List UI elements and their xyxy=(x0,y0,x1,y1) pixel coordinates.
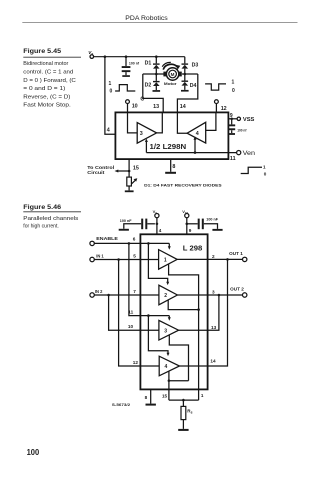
svg-text:Vs: Vs xyxy=(153,209,158,215)
svg-text:100 nF: 100 nF xyxy=(206,217,218,221)
svg-text:7: 7 xyxy=(133,289,136,294)
svg-text:1/2 L298N: 1/2 L298N xyxy=(150,144,187,151)
svg-text:C: C xyxy=(140,97,144,103)
svg-text:Figure 5.45: Figure 5.45 xyxy=(23,48,61,55)
svg-text:control. (C = 1 and: control. (C = 1 and xyxy=(23,70,73,76)
svg-text:8: 8 xyxy=(172,164,175,170)
resistor R1 sense xyxy=(127,171,138,190)
wire sense A from A1 to pin 1 xyxy=(169,264,199,400)
note fast recovery diodes xyxy=(144,184,222,188)
wire Vs supply rail xyxy=(94,56,185,58)
wire IN2 to pin 7 xyxy=(94,289,159,296)
svg-text:4: 4 xyxy=(159,228,162,233)
svg-text:D4: D4 xyxy=(190,83,197,89)
node Vss terminal xyxy=(182,209,189,218)
svg-text:1: 1 xyxy=(164,258,167,264)
svg-text:Paralleled channels: Paralleled channels xyxy=(23,216,79,222)
svg-text:4: 4 xyxy=(107,128,110,134)
node Vs terminal xyxy=(153,209,159,218)
figure 5.46 caption xyxy=(23,204,81,230)
wire sense B from A4 to pin 15 xyxy=(168,371,189,400)
FIG 5.46 SCHEMATIC xyxy=(90,209,247,431)
op-amp A4 xyxy=(187,122,206,143)
svg-text:100 nf: 100 nf xyxy=(129,61,140,65)
wire sense join below box xyxy=(162,393,204,402)
svg-text:8: 8 xyxy=(145,395,148,400)
wire enable rail to Ven pin 11 xyxy=(146,152,236,154)
wire arrow to control circuit xyxy=(87,165,129,175)
svg-text:Circuit: Circuit xyxy=(87,170,105,175)
ground under C2 xyxy=(229,133,235,135)
svg-text:0: 0 xyxy=(232,88,235,94)
wire pin12 to A4 input xyxy=(206,112,216,130)
svg-text:13: 13 xyxy=(153,104,159,110)
ground under R1 xyxy=(125,190,134,192)
svg-text:Reverse, (C = D): Reverse, (C = D) xyxy=(23,94,70,100)
wire IN1 to pin 12 xyxy=(119,260,160,367)
ground left of C3 xyxy=(119,229,129,231)
note figure code xyxy=(112,403,130,407)
diode D1 xyxy=(145,57,160,74)
op-amp U1 box 1/2 L298N xyxy=(115,112,228,159)
ground pin 8 xyxy=(146,404,156,406)
op-amp A3 xyxy=(159,320,179,340)
svg-text:12: 12 xyxy=(221,106,227,112)
FIG 5.45 SCHEMATIC xyxy=(87,50,266,192)
svg-text:3: 3 xyxy=(212,289,215,294)
svg-text:1: 1 xyxy=(109,81,112,87)
svg-text:D1: D1 xyxy=(145,61,152,67)
wire pin 4 supply xyxy=(156,218,162,235)
wire enable riser A3 xyxy=(145,139,148,153)
resistor Rs xyxy=(181,400,193,429)
ground right of C4 xyxy=(212,229,222,231)
waveform Ven enable step xyxy=(241,165,267,177)
svg-text:0: 0 xyxy=(110,88,113,94)
svg-text:1: 1 xyxy=(201,393,204,398)
svg-text:To Control: To Control xyxy=(87,165,114,170)
node OUT1 terminal xyxy=(229,251,247,262)
svg-text:4: 4 xyxy=(196,131,199,137)
motor M1 xyxy=(162,62,182,86)
svg-text:100 nf: 100 nf xyxy=(237,128,247,132)
svg-text:14: 14 xyxy=(180,104,186,110)
svg-text:Fast Motor Stop.: Fast Motor Stop. xyxy=(23,103,71,109)
wire sense A from A2 xyxy=(168,300,200,311)
wire pin 15 sense xyxy=(128,159,139,172)
svg-text:OUT 2: OUT 2 xyxy=(230,287,244,292)
node C input terminal pin 10 xyxy=(126,97,145,113)
capacitor C4 100nF xyxy=(187,217,219,229)
svg-text:L 298: L 298 xyxy=(183,245,203,252)
capacitor C3 100nF xyxy=(120,219,155,230)
node Vs terminal xyxy=(88,50,93,58)
wire ground to C3 xyxy=(124,224,141,229)
node IN1 terminal xyxy=(90,254,105,262)
wire A4 output pin 14 xyxy=(180,359,217,367)
svg-text:S-5673/2: S-5673/2 xyxy=(112,403,130,407)
svg-text:for high current.: for high current. xyxy=(23,224,59,230)
svg-text:100 nF: 100 nF xyxy=(120,219,132,223)
wire enable A into A2 xyxy=(148,243,169,285)
wire pin 13 to OUT2 xyxy=(208,295,219,330)
svg-text:Rs: Rs xyxy=(187,409,192,415)
svg-text:D1: D4 FAST RECOVERY DIODES: D1: D4 FAST RECOVERY DIODES xyxy=(144,184,222,188)
svg-text:2: 2 xyxy=(164,293,167,299)
svg-text:15: 15 xyxy=(133,166,139,172)
svg-text:D2: D2 xyxy=(145,82,152,88)
node VSS terminal pin 9 xyxy=(228,113,255,123)
svg-text:D3: D3 xyxy=(192,62,199,68)
svg-text:ENABLE: ENABLE xyxy=(96,236,118,241)
svg-text:M: M xyxy=(171,72,175,77)
diode D4 xyxy=(182,74,197,90)
wire IN1 to pin 5 xyxy=(94,254,158,261)
junction rail-D1 xyxy=(155,55,158,58)
svg-text:Vss: Vss xyxy=(182,209,188,215)
wire ENABLE to pin 11 xyxy=(128,243,169,315)
ground under C1 xyxy=(122,75,130,77)
svg-text:Bidirectional motor: Bidirectional motor xyxy=(23,61,68,67)
svg-text:2: 2 xyxy=(212,254,215,259)
svg-text:10: 10 xyxy=(128,324,134,329)
wire pin 8 ground xyxy=(145,389,151,403)
svg-text:Figure 5.46: Figure 5.46 xyxy=(23,204,61,211)
svg-text:10: 10 xyxy=(132,103,138,109)
page header xyxy=(22,15,297,23)
svg-text:9: 9 xyxy=(189,228,192,233)
svg-text:5: 5 xyxy=(133,254,136,259)
wire A3 output to pin13 xyxy=(157,112,163,132)
wire pin 9 supply xyxy=(186,218,192,235)
ground pin 8 xyxy=(165,172,176,174)
svg-text:3: 3 xyxy=(140,131,143,137)
page number xyxy=(27,448,40,457)
capacitor C2 100nf xyxy=(228,120,247,133)
wire motor-left to pin 13 xyxy=(143,74,163,112)
svg-text:Motor: Motor xyxy=(164,82,178,86)
wire A1 output to OUT1 xyxy=(177,254,242,261)
ground under D2 xyxy=(153,90,161,92)
wire A4 output to pin14 xyxy=(177,112,187,133)
wire enable riser A4 xyxy=(194,136,197,154)
svg-text:= 0 and D = 1): = 0 and D = 1) xyxy=(23,86,65,92)
wire motor left node xyxy=(143,73,164,76)
svg-text:D = 0 ) Forward, (C: D = 0 ) Forward, (C xyxy=(23,78,76,84)
wire pin 14 to OUT1 xyxy=(208,259,228,366)
svg-text:IN 1: IN 1 xyxy=(96,254,104,259)
wire enable B into A3 xyxy=(147,314,171,320)
wire enable B into A4 xyxy=(148,316,169,357)
svg-text:1: 1 xyxy=(263,165,266,170)
svg-text:12: 12 xyxy=(133,360,139,365)
svg-text:9: 9 xyxy=(230,113,233,119)
wire A2 output to OUT2 xyxy=(177,289,242,296)
node OUT2 terminal xyxy=(230,287,247,298)
waveform D input xyxy=(205,80,235,94)
svg-text:14: 14 xyxy=(210,359,216,364)
ground under Rs xyxy=(178,429,188,431)
junction rail-pin4 xyxy=(104,55,107,58)
wire pin10 to A3 input xyxy=(128,112,138,132)
wire IN2 to pin 10 xyxy=(109,295,159,330)
wire ENABLE to pin 6 xyxy=(94,237,169,245)
node D input terminal pin 12 xyxy=(215,100,227,113)
wire motor right node xyxy=(182,73,198,76)
wire pin 4 (Vs to IC) xyxy=(105,57,116,135)
node Ven terminal xyxy=(230,150,256,162)
op-amp A1 xyxy=(159,250,178,270)
svg-text:15: 15 xyxy=(162,393,168,398)
junction rail-C1 xyxy=(125,55,128,58)
svg-text:100: 100 xyxy=(27,448,40,457)
svg-text:IN 2: IN 2 xyxy=(95,289,103,294)
node IN2 terminal xyxy=(90,289,103,297)
diode D3 xyxy=(182,57,199,74)
wire C4 to ground xyxy=(204,224,218,229)
svg-text:VSS: VSS xyxy=(243,117,255,123)
svg-text:11: 11 xyxy=(230,156,236,162)
wire A3 output pin 13 xyxy=(179,325,217,330)
waveform C input xyxy=(109,81,136,95)
node ENABLE terminal xyxy=(90,236,118,245)
svg-text:Vs: Vs xyxy=(88,50,93,56)
svg-text:4: 4 xyxy=(165,364,168,370)
wire sense B from A3 xyxy=(169,335,188,381)
figure 5.45 caption xyxy=(23,48,81,108)
diode D2 xyxy=(145,74,160,90)
op-amp A3 xyxy=(137,123,156,144)
svg-text:11: 11 xyxy=(128,309,133,314)
svg-text:0: 0 xyxy=(264,172,267,177)
wire pin 8 to ground xyxy=(171,159,176,172)
ground under D4 xyxy=(181,90,189,92)
svg-text:3: 3 xyxy=(164,328,167,334)
svg-text:13: 13 xyxy=(211,325,217,330)
svg-text:6: 6 xyxy=(133,237,136,242)
op-amp A2 xyxy=(159,285,178,305)
wire enable A into A1 xyxy=(147,242,171,250)
svg-text:OUT 1: OUT 1 xyxy=(229,251,243,256)
svg-text:1: 1 xyxy=(232,80,235,86)
wire motor-right to pin 14 xyxy=(177,74,197,112)
svg-text:PDA Robotics: PDA Robotics xyxy=(125,15,168,22)
capacitor C1 100nf xyxy=(122,57,140,75)
svg-text:Ven: Ven xyxy=(243,150,256,157)
IC U2 box L298 xyxy=(140,234,207,389)
op-amp A4 xyxy=(159,356,179,376)
